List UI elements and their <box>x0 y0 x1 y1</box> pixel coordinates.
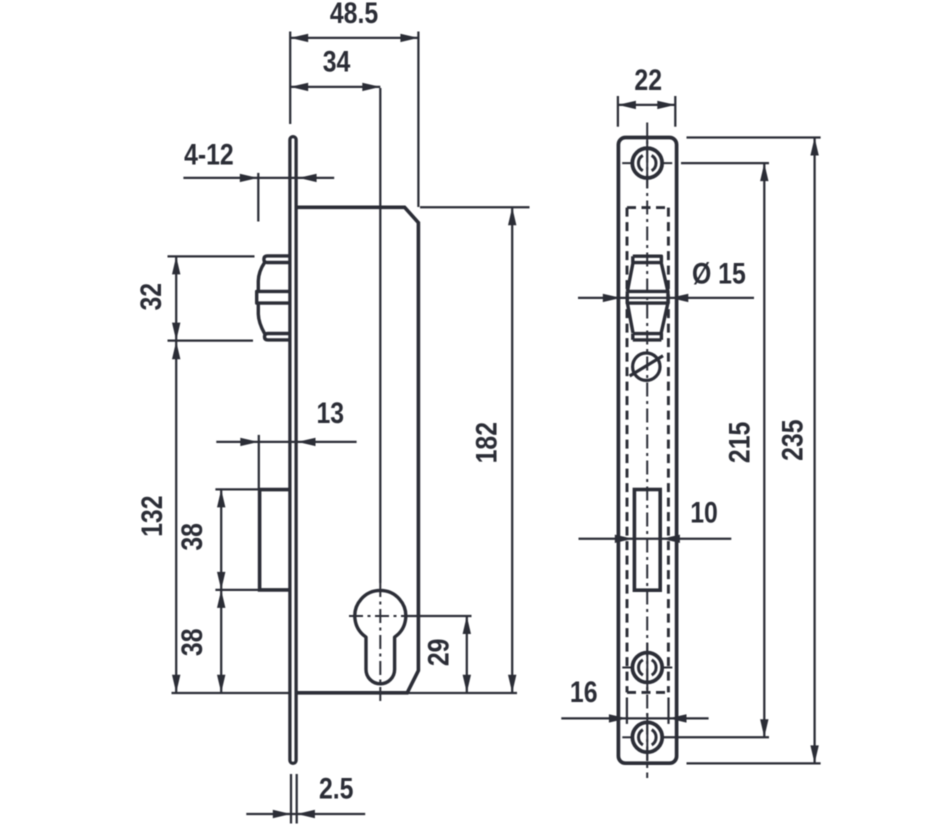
dimension 2.5: dimension line with arrows <box>246 813 365 815</box>
svg-text:235: 235 <box>775 420 809 461</box>
svg-text:38: 38 <box>175 523 209 551</box>
dimension 10: dimension line with arrows <box>579 538 732 540</box>
euro profile cylinder (side view) <box>355 590 406 683</box>
svg-text:132: 132 <box>135 496 169 537</box>
dimension 29: dimension line with arrows <box>466 616 468 693</box>
dimension 48.5: extension line left <box>289 32 291 125</box>
svg-text:4-12: 4-12 <box>184 137 234 171</box>
cylinder vertical centerline (dash-dot) <box>379 583 381 701</box>
dimension 4-12: extension line <box>257 173 259 222</box>
dimension 29: extension line <box>406 615 472 617</box>
latch bolt upper bevel edge <box>258 263 264 292</box>
latch bolt (front) bottom band <box>633 334 662 340</box>
dimension 16: extension line left <box>626 698 628 724</box>
centerline solid tick at top screw <box>646 139 648 188</box>
svg-text:10: 10 <box>690 495 718 529</box>
latch bolt bottom band <box>265 334 289 340</box>
slotted screw diagonal slot <box>630 356 663 376</box>
dimension 132: dimension line with arrows <box>175 341 177 693</box>
dimension 13: extension line <box>258 435 260 489</box>
lower screw hole outer circle <box>632 653 662 683</box>
latch bolt middle band <box>257 291 289 303</box>
hidden lock case (dashed) right edge <box>667 208 670 693</box>
bottom screw crosshair ticks <box>622 736 632 738</box>
dimension 22: extension line right <box>674 96 676 127</box>
latch bolt (front) middle band <box>627 291 668 303</box>
hidden lock case (dashed) bottom edge <box>627 691 668 694</box>
dimension 215: extension line top <box>681 162 769 164</box>
dimension 48.5: extension line right <box>417 32 419 208</box>
latch bolt (front view) top band <box>633 256 662 262</box>
dimension 38 upper: dimension line with arrows <box>220 489 222 590</box>
dimension 48.5: dimension line with arrows <box>290 37 418 39</box>
deadbolt slot rectangle (front view) <box>634 490 660 591</box>
dimension 2.5: extension line right <box>296 774 298 824</box>
top screw hole inner slot arcs <box>638 155 656 170</box>
top screw hole outer circle <box>632 148 662 178</box>
deadbolt (side view, rectangle protruding) <box>260 490 289 590</box>
dimension 32: extension line top <box>168 255 255 257</box>
dimension 16: extension line right <box>667 698 669 724</box>
dimension 38 upper: extension line top <box>215 488 258 490</box>
svg-text:29: 29 <box>421 639 455 667</box>
lower screw hole inner slot arcs <box>639 660 657 675</box>
dimension 34: dimension line with arrows <box>290 86 380 88</box>
dimension 215: extension line bottom <box>662 736 769 738</box>
svg-text:2.5: 2.5 <box>319 771 353 805</box>
lower screw crosshair ticks <box>622 667 672 669</box>
dimension 22: dimension line with arrows <box>618 104 675 106</box>
dimension 182: extension line top <box>420 206 530 208</box>
top screw crosshair ticks <box>622 162 672 164</box>
dimension 32: dimension line with arrows <box>175 256 177 340</box>
dimension 235: extension line bottom <box>687 762 821 764</box>
svg-text:22: 22 <box>634 63 662 97</box>
svg-text:215: 215 <box>722 422 756 463</box>
faceplate (side view, thin vertical strip) <box>290 137 296 764</box>
faceplate vertical centerline (dash-dot) <box>646 123 648 779</box>
svg-text:48.5: 48.5 <box>330 0 378 30</box>
dimension 182: dimension line with arrows <box>511 207 513 693</box>
dimension 235: extension line top <box>687 136 821 138</box>
hidden lock case (dashed) top edge <box>627 206 668 209</box>
dimension 4-12: dimension line with arrows <box>183 177 334 179</box>
latch bolt lower bevel edge <box>258 303 264 333</box>
shared bottom extension line left of case <box>172 692 291 694</box>
dimension 13: dimension line with arrows <box>216 441 356 443</box>
svg-text:34: 34 <box>323 44 351 78</box>
dimension 2.5: extension line left <box>290 774 292 824</box>
faceplate (front view, rounded rectangle) <box>618 138 676 764</box>
shared bottom extension line right of case <box>407 692 517 694</box>
svg-text:13: 13 <box>317 396 345 430</box>
bottom screw hole inner slot arcs <box>639 730 657 745</box>
dimension 215: dimension line with arrows <box>763 163 765 737</box>
dimension 235: dimension line with arrows <box>813 138 815 764</box>
centerline solid tick at lower screw <box>646 643 648 691</box>
bottom screw hole outer circle <box>632 722 662 752</box>
lock case body (side view outline with chamfered right corners) <box>297 207 418 693</box>
slotted screw circle <box>633 353 660 380</box>
centerline solid tick at bottom screw <box>646 713 648 761</box>
latch bolt (side view) top band <box>264 256 289 263</box>
dimension 32: extension line bottom <box>168 339 254 341</box>
svg-text:38: 38 <box>175 629 209 657</box>
dimension dia15: dimension line with arrows <box>578 297 754 299</box>
latch bolt (front) upper trapezoid sides <box>627 263 668 292</box>
dimension 38 upper: extension line bottom <box>215 589 264 591</box>
dimension 16: dimension line with arrows <box>561 717 708 719</box>
backset axis solid thin line <box>379 88 381 583</box>
cylinder horizontal centerline (dash-dot) <box>349 615 410 617</box>
hidden lock case (dashed) left edge <box>626 208 629 693</box>
svg-text:16: 16 <box>570 675 598 709</box>
svg-text:182: 182 <box>469 422 503 463</box>
svg-text:Ø 15: Ø 15 <box>692 256 746 290</box>
svg-text:32: 32 <box>134 283 168 311</box>
dimension 22: extension line left <box>617 96 619 127</box>
dimension 38 lower: dimension line with arrows <box>220 590 222 693</box>
latch bolt (front) lower trapezoid sides <box>627 303 668 333</box>
